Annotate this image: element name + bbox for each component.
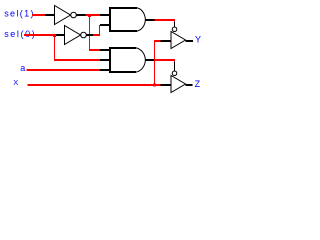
inverter U1 bubble [71, 12, 77, 18]
wire X tee riser up to U5 [154, 42, 156, 85]
wire elbow to AND2 in1 (2px run) [89, 49, 100, 51]
wire U2 output to riser [93, 34, 100, 36]
pin stub U6 input [161, 84, 172, 86]
and-gate U4 AND2 body [109, 47, 136, 49]
pin stub U2 input [56, 34, 65, 36]
inverter U2 bubble [81, 32, 87, 38]
wire AND1 out to U5 enable [155, 19, 176, 21]
tristate buffer U5 triangle (Y) [171, 32, 186, 49]
pin stub AND2 in2 [100, 59, 110, 61]
pin stub AND2 in1 [100, 49, 110, 51]
tristate buffer U6 triangle (Z) [171, 76, 186, 93]
pin stub AND2 in3 [100, 69, 110, 71]
pin stub AND1 in2 [100, 24, 110, 26]
svg-text:a: a [20, 63, 25, 73]
inverter U2 triangle [65, 26, 81, 45]
pin stub U1 input [45, 14, 55, 16]
tristate buffer U5 bubble [172, 27, 177, 32]
wire X tee top run to U5 input [154, 40, 161, 42]
wire U5 enable riser (red corner bit) [174, 20, 176, 23]
wire sel(1) to U1 input [32, 14, 46, 16]
wire X to U6 BUFT input [28, 84, 161, 86]
pin stub AND2 output [145, 59, 154, 61]
pin stub U5 enable (black) [174, 22, 176, 28]
and-gate U3 AND1 body [109, 7, 137, 9]
wire U6 enable riser (red corner bit) [174, 60, 176, 63]
wire a to AND2 input3 [27, 69, 101, 71]
svg-text:sel(0): sel(0) [4, 29, 36, 39]
inverter U1 triangle [55, 6, 71, 25]
wire N1 down to AND2 in1 elbow [90, 17, 100, 50]
pin stub U5 input [161, 40, 172, 42]
pin stub U6 output [186, 84, 193, 86]
junction dot node N2 on sel(0) [53, 34, 56, 37]
tristate buffer U6 bubble [172, 71, 177, 76]
svg-text:X: X [13, 78, 18, 87]
wire N2 down to AND2 in2 [55, 37, 100, 61]
junction dot node N3 on X [153, 84, 156, 87]
wire AND2 out to U6 enable [155, 59, 176, 61]
junction dot node N1 [88, 14, 91, 17]
pin stub U5 output [186, 40, 194, 42]
pin stub U2 output [86, 34, 93, 36]
wire U1 output to AND1 in1 [86, 14, 101, 16]
and-gate U3 AND1 arc [137, 8, 146, 31]
wire riser up to AND1 in2 [100, 26, 102, 36]
pin stub U6 enable (black) [174, 62, 176, 72]
and-gate U4 AND2 arc [136, 48, 146, 72]
wire N2 riser bottom run to AND2 in2 (2px) [54, 59, 100, 61]
svg-text:Y: Y [195, 34, 201, 44]
pin stub AND1 output [145, 19, 154, 21]
svg-text:Z: Z [195, 79, 201, 89]
svg-text:sel(1): sel(1) [4, 9, 35, 19]
wire sel(0) to U2 input [24, 34, 56, 36]
pin stub AND1 in1 [100, 14, 110, 16]
pin stub U1 output [76, 14, 85, 16]
